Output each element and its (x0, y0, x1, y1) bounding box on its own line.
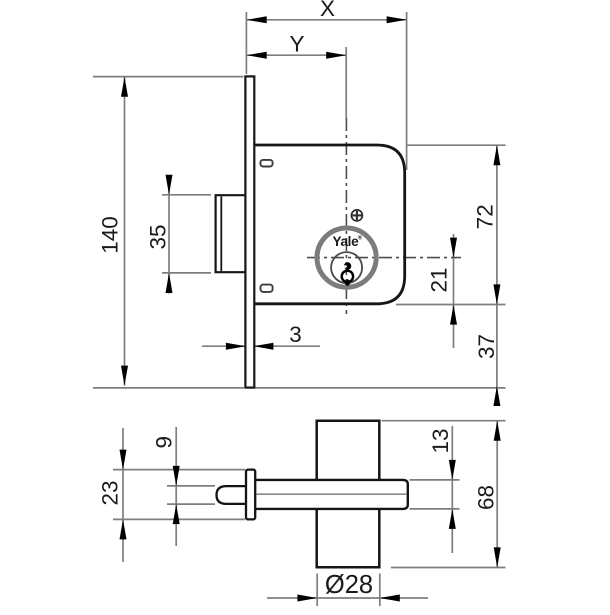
svg-text:®: ® (358, 235, 363, 242)
svg-text:Yale: Yale (332, 234, 359, 249)
svg-text:3: 3 (289, 322, 302, 347)
svg-text:13: 13 (428, 428, 453, 453)
svg-text:35: 35 (146, 224, 171, 249)
svg-text:68: 68 (474, 485, 499, 510)
svg-text:140: 140 (98, 216, 123, 254)
svg-text:21: 21 (427, 267, 452, 292)
svg-text:37: 37 (474, 334, 499, 359)
svg-text:Ø28: Ø28 (325, 571, 373, 599)
svg-text:9: 9 (151, 436, 176, 449)
svg-text:72: 72 (473, 204, 498, 229)
svg-text:23: 23 (98, 480, 123, 505)
svg-text:X: X (320, 0, 335, 21)
svg-text:Y: Y (289, 32, 304, 57)
